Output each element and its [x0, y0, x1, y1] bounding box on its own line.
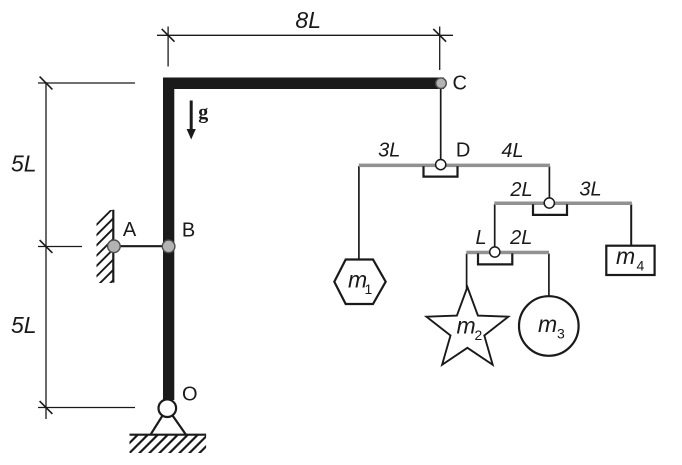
svg-text:B: B [182, 220, 195, 242]
svg-text:3L: 3L [579, 179, 601, 201]
svg-text:g: g [198, 102, 208, 124]
svg-text:3: 3 [557, 326, 565, 342]
svg-text:1: 1 [365, 281, 373, 297]
svg-text:2L: 2L [509, 227, 532, 249]
svg-text:m: m [457, 313, 476, 339]
svg-text:m: m [616, 243, 635, 269]
svg-text:A: A [123, 219, 137, 241]
svg-text:3L: 3L [378, 140, 400, 162]
svg-text:5L: 5L [11, 150, 37, 176]
svg-text:8L: 8L [295, 7, 321, 33]
svg-text:L: L [476, 227, 487, 249]
svg-text:2L: 2L [509, 179, 532, 201]
svg-text:2: 2 [475, 327, 483, 343]
svg-text:D: D [456, 140, 470, 162]
svg-text:5L: 5L [11, 312, 37, 338]
svg-text:4: 4 [637, 258, 645, 274]
svg-text:4L: 4L [501, 140, 523, 162]
svg-text:C: C [453, 72, 467, 94]
svg-text:O: O [182, 384, 198, 406]
svg-text:m: m [538, 311, 557, 337]
